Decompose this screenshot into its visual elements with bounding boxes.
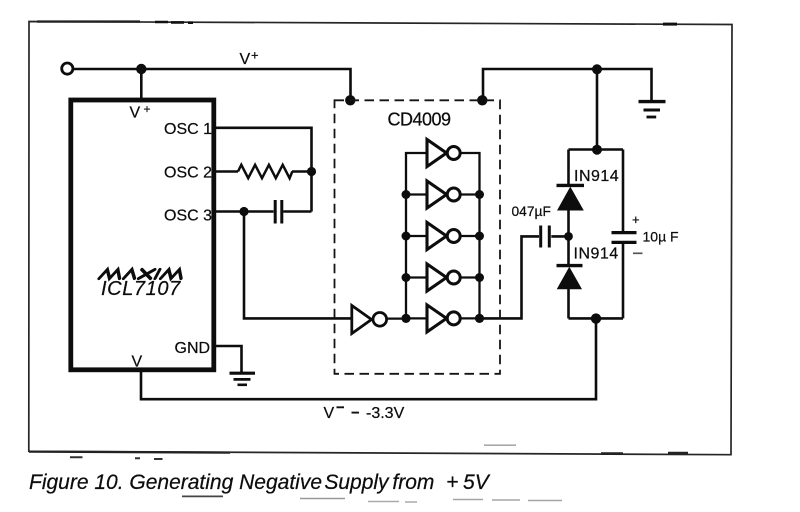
svg-text:+: + bbox=[251, 48, 259, 63]
svg-text:Figure 10. Generating Negative: Figure 10. Generating Negative Supply fr… bbox=[29, 471, 491, 494]
svg-text:-3.3V: -3.3V bbox=[366, 405, 405, 422]
svg-text:047µF: 047µF bbox=[512, 204, 551, 219]
svg-text:GND: GND bbox=[175, 340, 211, 357]
svg-text:+: + bbox=[632, 212, 640, 227]
svg-text:IN914: IN914 bbox=[574, 245, 619, 262]
svg-text:+: + bbox=[144, 102, 151, 116]
svg-text:V: V bbox=[240, 51, 251, 68]
svg-text:V: V bbox=[130, 105, 141, 122]
svg-text:OSC 1: OSC 1 bbox=[164, 121, 212, 138]
svg-text:CD4009: CD4009 bbox=[388, 109, 452, 129]
svg-text:V: V bbox=[132, 353, 143, 370]
svg-text:10µ F: 10µ F bbox=[643, 229, 679, 245]
svg-text:IN914: IN914 bbox=[574, 168, 619, 185]
svg-text:OSC 3: OSC 3 bbox=[164, 207, 212, 224]
svg-text:ICL7107: ICL7107 bbox=[101, 278, 181, 300]
svg-text:OSC 2: OSC 2 bbox=[164, 164, 212, 181]
svg-text:V: V bbox=[324, 405, 335, 422]
